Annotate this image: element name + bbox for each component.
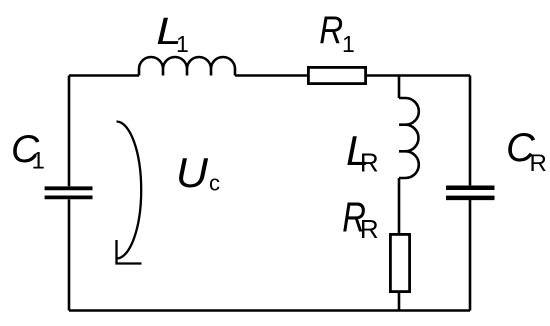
svg-text:1: 1 — [342, 31, 355, 57]
svg-text:U: U — [176, 150, 209, 197]
svg-text:R: R — [319, 7, 343, 51]
svg-text:c: c — [209, 171, 220, 196]
svg-text:1: 1 — [32, 148, 45, 175]
svg-text:R: R — [530, 150, 547, 177]
svg-text:R: R — [360, 148, 379, 178]
svg-text:1: 1 — [176, 31, 189, 57]
svg-text:R: R — [360, 214, 379, 244]
